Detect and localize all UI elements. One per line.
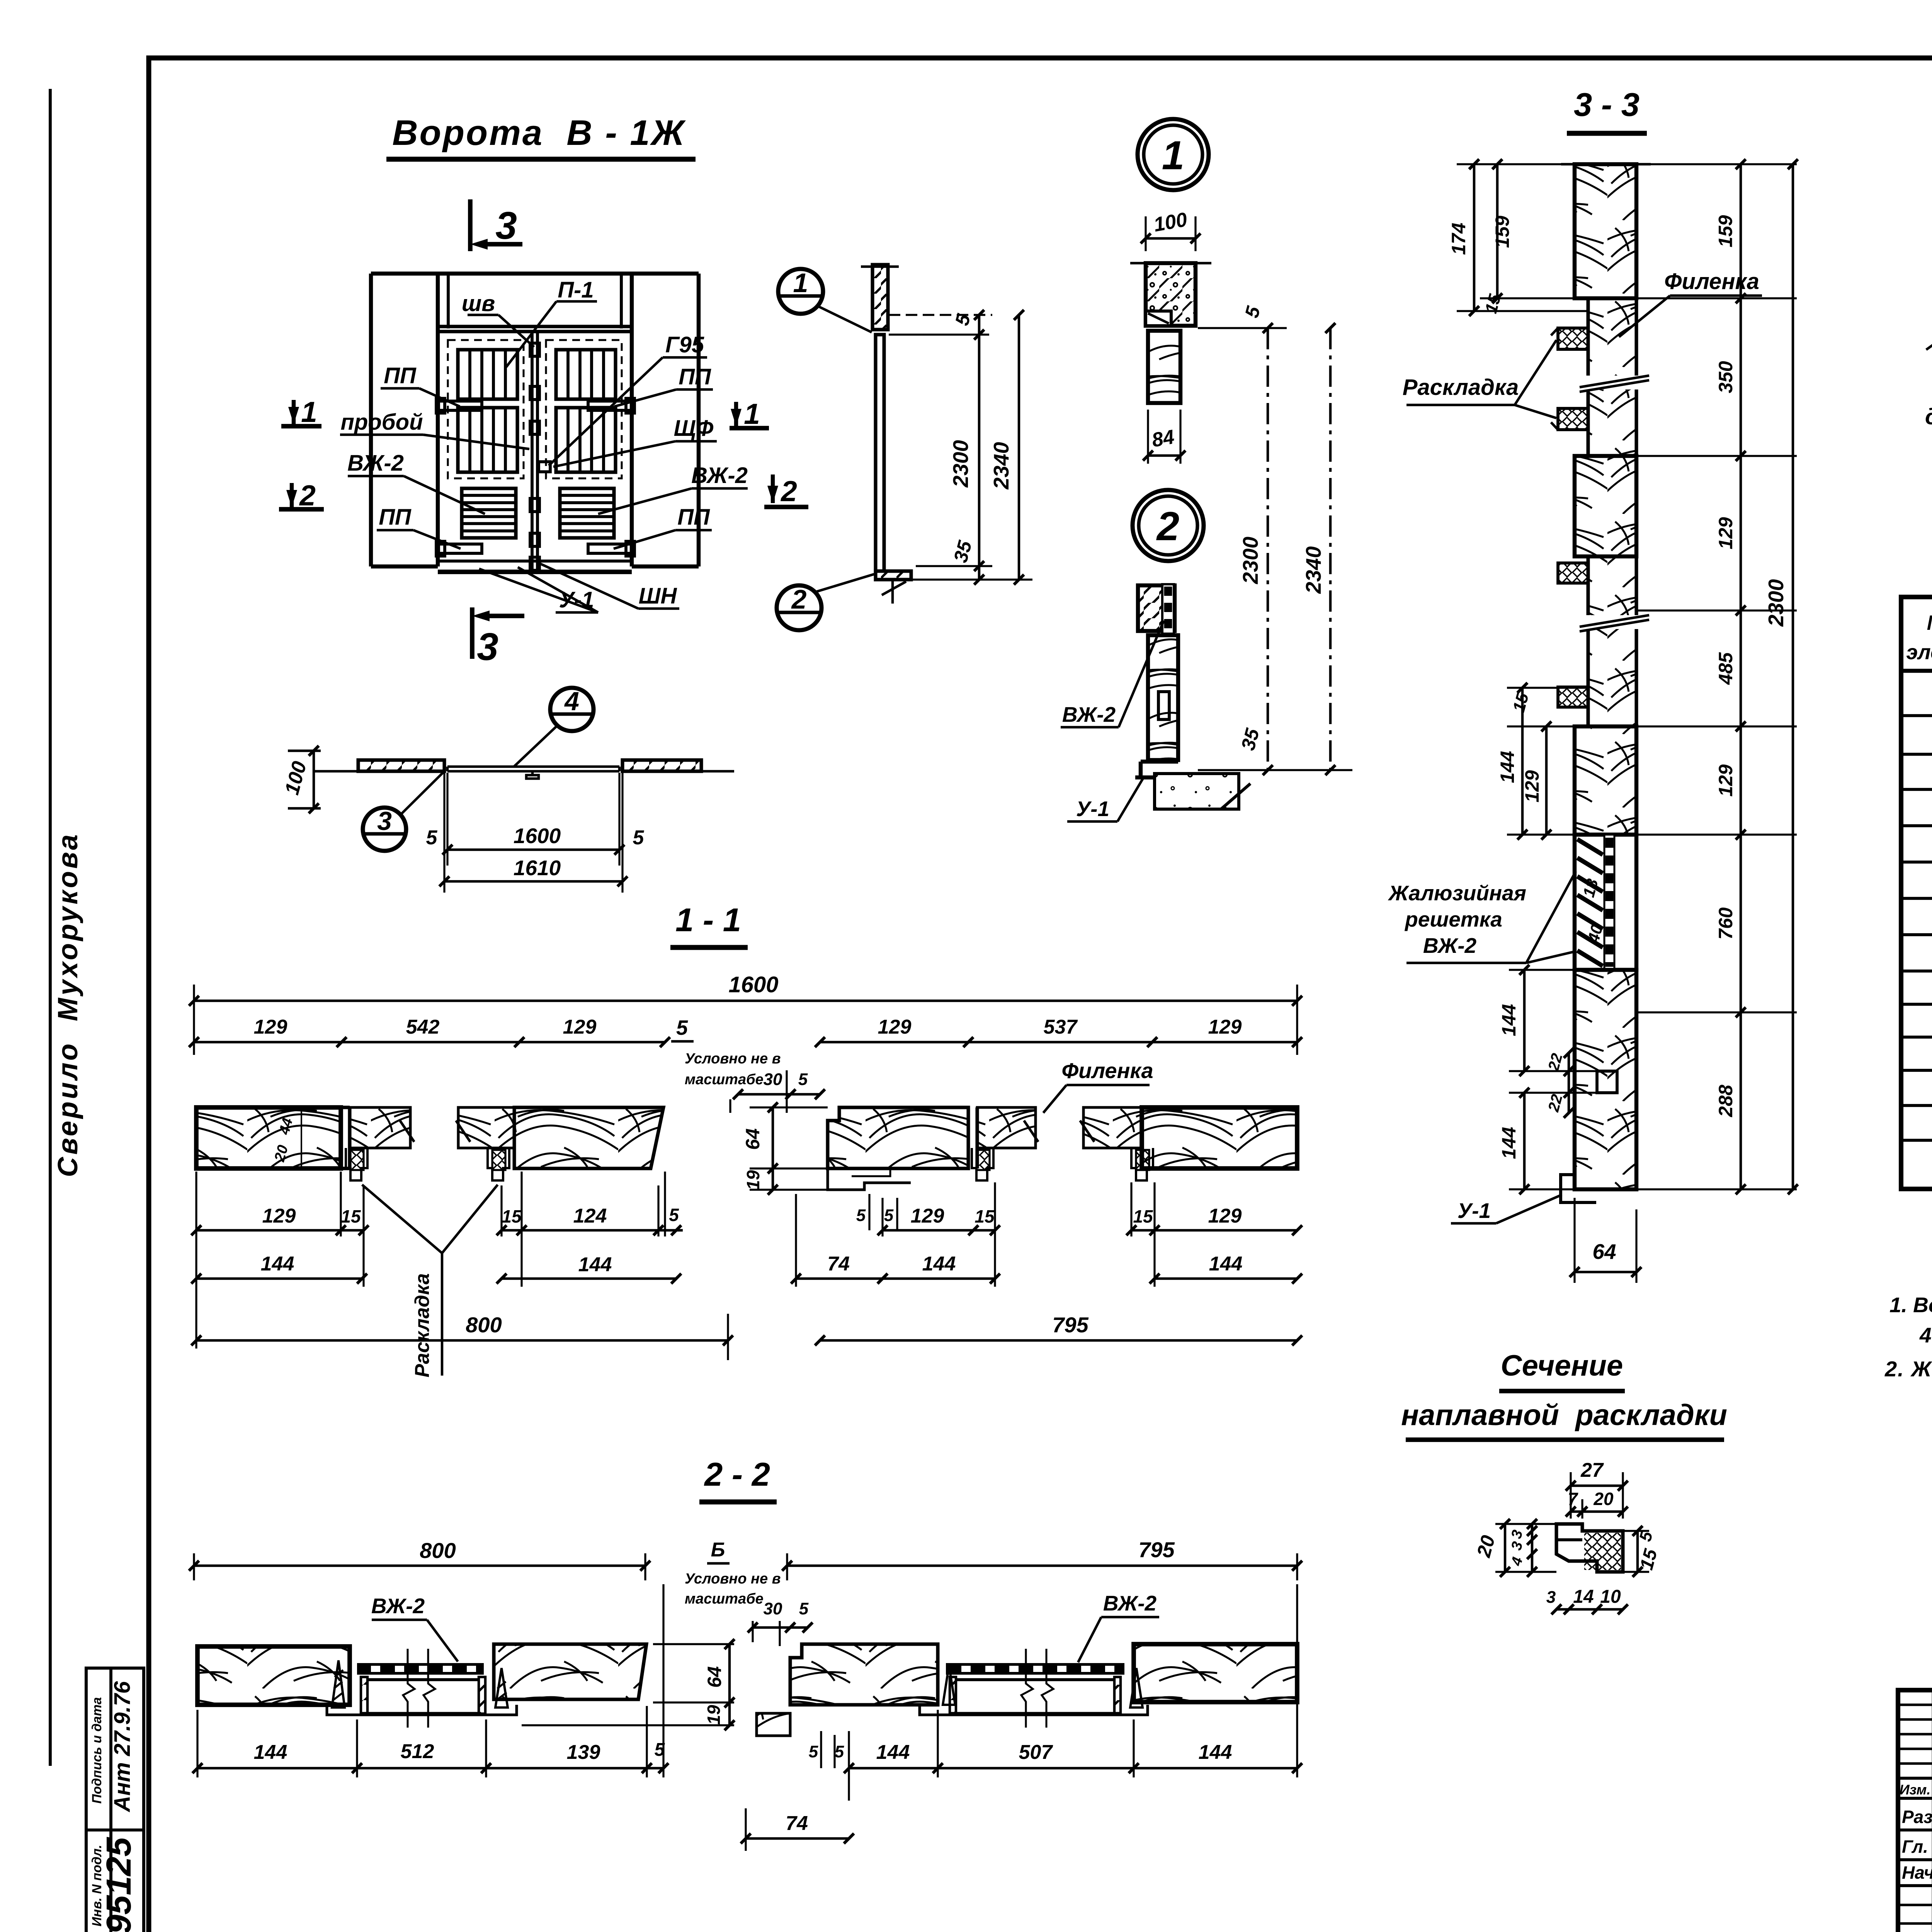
svg-text:3 - 3: 3 - 3 (1574, 87, 1639, 123)
svg-text:15: 15 (341, 1206, 361, 1226)
svg-text:Сверило Мухорукова: Сверило Мухорукова (53, 832, 83, 1177)
3-3 left dims top (1457, 163, 1561, 165)
svg-text:П-1: П-1 (558, 277, 594, 303)
svg-text:Сечение: Сечение (1501, 1349, 1623, 1382)
svg-text:1: 1 (793, 268, 808, 298)
balloon 3 plan (363, 808, 406, 851)
1-1 left bar: left wood block (196, 1107, 341, 1168)
balloon 1 side view (778, 269, 823, 314)
svg-text:288: 288 (1715, 1085, 1736, 1117)
leaf dashed contour (546, 340, 622, 478)
leaf dashed contour (448, 340, 524, 478)
door leaves bottom (438, 570, 632, 574)
svg-text:Подпись и дата: Подпись и дата (90, 1697, 104, 1804)
svg-text:1610: 1610 (514, 856, 561, 880)
svg-text:30: 30 (764, 1070, 782, 1089)
balloon 4 plan (550, 688, 594, 731)
title block small table verticals (1932, 1690, 1932, 1932)
svg-text:5: 5 (655, 1740, 665, 1760)
svg-text:800: 800 (466, 1313, 502, 1337)
2-2 left louver strip VZh-2 (357, 1663, 484, 1675)
embedded angle in panel (1146, 311, 1171, 326)
plan left wall bar (358, 760, 444, 771)
svg-text:2300: 2300 (1764, 579, 1788, 627)
svg-text:1600: 1600 (728, 972, 778, 997)
svg-text:124: 124 (573, 1205, 607, 1227)
svg-text:3: 3 (1508, 1540, 1526, 1552)
2-2 right stake A (943, 1665, 955, 1705)
svg-text:5: 5 (676, 1016, 688, 1039)
section mark 1 left (292, 400, 296, 424)
2-2 vertical dims 64 19 (653, 1643, 734, 1645)
detail1 dim 100 (1145, 216, 1146, 251)
svg-text:ПП: ПП (384, 363, 417, 388)
2-2 dim 795 (786, 1553, 788, 1580)
leaf slat panel (556, 350, 616, 399)
2-2 left bar: right wood block (494, 1644, 646, 1699)
2-2 right bar: right wood block (1134, 1644, 1297, 1702)
svg-text:наплавной раскладки: наплавной раскладки (1401, 1399, 1727, 1432)
svg-text:Ворота В - 1Ж: Ворота В - 1Ж (392, 113, 686, 153)
section mark 3 top (468, 199, 473, 251)
svg-text:ВЖ-2: ВЖ-2 (1423, 934, 1477, 957)
svg-text:ШН: ШН (639, 583, 677, 609)
svg-text:1 - 1: 1 - 1 (675, 902, 741, 939)
transom rail (438, 325, 632, 328)
svg-text:2: 2 (791, 584, 807, 614)
svg-text:3: 3 (377, 806, 392, 836)
svg-text:У-1: У-1 (1458, 1199, 1491, 1223)
svg-text:795: 795 (1052, 1313, 1088, 1337)
svg-text:350: 350 (1715, 361, 1736, 393)
leaf slat panel (458, 408, 517, 472)
1-1 right bar: right wood block (1142, 1107, 1297, 1168)
detail1 wood leaf section (1148, 331, 1180, 403)
2-2 right stake (495, 1668, 508, 1708)
vertical dim 2300 detail (1267, 328, 1269, 770)
svg-text:Жалюзийная: Жалюзийная (1388, 881, 1526, 905)
svg-text:Раскладка: Раскладка (1403, 375, 1519, 400)
svg-text:19: 19 (704, 1705, 724, 1725)
svg-text:95125: 95125 (100, 1837, 138, 1932)
vertical dim 2340 detail (1198, 769, 1352, 771)
section mark 2 at side view (771, 474, 775, 503)
3-3 filenka panel A (1588, 298, 1636, 456)
svg-text:1: 1 (744, 398, 760, 430)
svg-text:20: 20 (1593, 1489, 1614, 1509)
side view door leaf (876, 335, 884, 571)
3-3 louver zone (1575, 835, 1636, 970)
svg-text:35: 35 (1237, 726, 1264, 752)
1-1 vertical dims 64 19 (750, 1106, 828, 1108)
svg-text:40: 40 (1584, 923, 1606, 945)
svg-text:2340: 2340 (989, 442, 1013, 490)
1-1 left bar: rail board 1 (350, 1107, 410, 1148)
svg-text:шв: шв (462, 291, 495, 316)
raskladka profile (1556, 1524, 1623, 1572)
svg-text:5: 5 (798, 1070, 808, 1089)
svg-text:3: 3 (477, 625, 498, 668)
svg-text:ПП: ПП (379, 505, 412, 530)
2-2 break lines (403, 1649, 415, 1728)
svg-text:15: 15 (1509, 691, 1532, 714)
svg-text:ВЖ-2: ВЖ-2 (1062, 702, 1116, 726)
center stile (531, 332, 534, 572)
svg-text:4: 4 (1508, 1555, 1526, 1568)
raskladka mouldings A (1558, 328, 1588, 349)
svg-text:Разраб.: Разраб. (1902, 1807, 1932, 1827)
svg-text:139: 139 (567, 1741, 600, 1764)
2-2 right bar: threshold piece (757, 1713, 790, 1736)
svg-text:Изм.: Изм. (1900, 1782, 1930, 1798)
svg-text:800: 800 (420, 1538, 456, 1563)
1-1 left bar: stile (339, 1107, 342, 1168)
svg-text:5: 5 (669, 1205, 679, 1225)
side view bottom sill (876, 571, 911, 580)
svg-text:159: 159 (1492, 216, 1513, 248)
margin stamp table (86, 1668, 144, 1932)
leaf slat panel (556, 408, 616, 472)
plan dim 1610 (444, 880, 622, 883)
svg-text:15: 15 (975, 1206, 995, 1226)
3-3 mid-left dims (1507, 687, 1588, 689)
svg-text:2: 2 (299, 479, 316, 512)
2-2 dim 800 (193, 1553, 195, 1580)
svg-text:22: 22 (1545, 1092, 1566, 1114)
section mark 3 bottom (470, 607, 474, 659)
2-2 bottom plate (327, 1705, 517, 1715)
svg-text:35: 35 (949, 538, 976, 565)
raskladka dims (1570, 1472, 1571, 1519)
plan handle (531, 771, 534, 775)
hinges PP (439, 401, 482, 410)
leaf slat panel (458, 350, 517, 399)
svg-text:15: 15 (1133, 1206, 1153, 1226)
svg-text:144: 144 (261, 1253, 294, 1275)
svg-text:7: 7 (1568, 1489, 1578, 1509)
svg-text:ВЖ-2: ВЖ-2 (347, 451, 404, 476)
2-2 right stake B (1130, 1668, 1143, 1708)
svg-text:129: 129 (1208, 1016, 1242, 1038)
3-3 bottom-left dims (1509, 969, 1575, 971)
sheet fold line left (49, 89, 52, 1766)
svg-text:100: 100 (281, 759, 311, 797)
1-1 right bar: left wood block with notch (828, 1107, 968, 1168)
svg-text:ПП: ПП (679, 364, 711, 389)
balloon 2 side view (777, 585, 821, 630)
spec table grid (1901, 597, 1932, 1189)
svg-text:5: 5 (633, 827, 645, 849)
svg-text:2 - 2: 2 - 2 (704, 1456, 770, 1493)
svg-text:27: 27 (1580, 1459, 1604, 1481)
svg-text:Условно не в: Условно не в (685, 1571, 781, 1587)
balloon detail 2 (1133, 490, 1204, 561)
3-3 right dim chain (1636, 163, 1797, 165)
svg-text:Нач. отд.: Нач. отд. (1902, 1862, 1932, 1883)
svg-text:144: 144 (922, 1253, 956, 1275)
svg-text:Б: Б (711, 1539, 725, 1561)
svg-text:2: 2 (780, 475, 797, 507)
detail2 wood post (1148, 635, 1178, 760)
svg-text:84: 84 (1150, 426, 1176, 452)
svg-text:Условно не в: Условно не в (685, 1051, 781, 1067)
svg-text:144: 144 (1497, 751, 1518, 783)
plan right wall bar (622, 760, 701, 771)
svg-text:5: 5 (809, 1742, 818, 1761)
1-1 left bar: rail board 2 (458, 1107, 514, 1148)
svg-text:Филенка: Филенка (1061, 1058, 1153, 1083)
svg-text:ПП: ПП (677, 505, 710, 530)
svg-text:2: 2 (1156, 504, 1179, 549)
svg-text:5: 5 (951, 311, 975, 328)
svg-text:решетка: решетка (1404, 907, 1502, 931)
dim 84 (1147, 410, 1149, 464)
svg-text:15: 15 (502, 1206, 522, 1226)
svg-text:2300: 2300 (1238, 536, 1262, 584)
svg-text:2340: 2340 (1301, 546, 1325, 594)
svg-text:Ант 27.9.76: Ант 27.9.76 (110, 1681, 135, 1813)
2-2 right bar: left wood block with notch (790, 1644, 938, 1705)
svg-text:деталь в панели.: деталь в панели. (1925, 404, 1932, 429)
svg-text:407 - 3 - 167/75, альбом III: 407 - 3 - 167/75, альбом III. (1919, 1323, 1932, 1347)
svg-text:144: 144 (876, 1741, 910, 1764)
svg-text:1600: 1600 (514, 824, 561, 848)
svg-text:760: 760 (1715, 907, 1736, 940)
svg-text:5: 5 (426, 827, 438, 849)
svg-text:ВЖ-2: ВЖ-2 (1103, 1591, 1157, 1615)
svg-text:ВЖ-2: ВЖ-2 (691, 463, 748, 488)
svg-text:144: 144 (1209, 1253, 1243, 1275)
svg-text:3: 3 (1508, 1528, 1526, 1540)
svg-text:144: 144 (254, 1741, 287, 1764)
svg-text:Марка: Марка (1927, 611, 1932, 634)
svg-text:129: 129 (262, 1205, 296, 1227)
2-2 left stake (332, 1660, 345, 1708)
svg-text:Раскладка: Раскладка (411, 1273, 434, 1378)
concrete sill detail2 (1155, 774, 1239, 809)
svg-text:64: 64 (1592, 1240, 1616, 1264)
gate jambs (436, 274, 440, 566)
3-3 filenka panel B (1588, 556, 1636, 726)
svg-text:74: 74 (827, 1253, 850, 1275)
svg-text:129: 129 (563, 1016, 597, 1038)
svg-text:20: 20 (1473, 1533, 1499, 1560)
svg-text:10: 10 (1600, 1587, 1621, 1607)
louver grille VZh-2 (462, 488, 516, 538)
svg-text:У-1: У-1 (1076, 797, 1109, 821)
detail2 louver strip (1162, 584, 1174, 634)
svg-text:масштабе: масштабе (685, 1071, 764, 1088)
3-3 bottom angle U-1 (1561, 1175, 1596, 1202)
svg-text:3: 3 (1546, 1588, 1556, 1607)
svg-text:144: 144 (1498, 1004, 1520, 1036)
1-1 dims below left bar (195, 1172, 197, 1349)
bottom angle U-1 (438, 560, 632, 563)
svg-text:64: 64 (742, 1128, 764, 1150)
side view top hatched jamb (872, 265, 888, 330)
svg-text:Гл. спец.: Гл. спец. (1902, 1837, 1932, 1857)
svg-text:Филенка: Филенка (1664, 269, 1759, 294)
3-3 overall 2300 (1792, 164, 1794, 1189)
louver grille VZh-2 (560, 488, 614, 538)
1-1 overall dim 1600 (193, 985, 195, 1055)
1-1 right raskladka mouldings (972, 1148, 993, 1180)
3-3 wood column segments (1561, 163, 1651, 166)
gate wall panel outline (371, 272, 699, 276)
svg-text:144: 144 (1199, 1741, 1232, 1764)
svg-text:507: 507 (1019, 1741, 1053, 1764)
gap dim 5 (1198, 327, 1287, 329)
svg-text:129: 129 (878, 1016, 912, 1038)
1-1 right bar: stile (966, 1107, 970, 1168)
1-1 chain dims row (194, 1041, 665, 1044)
svg-text:1. Ворота В - 1Ж выполнены с и: 1. Ворота В - 1Ж выполнены с использован… (1889, 1293, 1932, 1317)
svg-text:129: 129 (911, 1205, 944, 1227)
1-1 left bar: right wood block (514, 1107, 663, 1168)
plan dim 1600 (443, 773, 445, 893)
svg-text:пробой: пробой (340, 410, 423, 435)
U-1 angle detail2 (1141, 760, 1178, 764)
svg-text:2. Жалюзийную решетку ВЖ-2: 2. Жалюзийную решетку ВЖ-2 смотреть на л… (1884, 1357, 1932, 1381)
2-2 left channel (361, 1677, 367, 1714)
svg-text:129: 129 (1715, 764, 1736, 797)
svg-text:129: 129 (1715, 517, 1736, 549)
svg-text:512: 512 (401, 1740, 434, 1763)
svg-text:2300: 2300 (949, 440, 973, 488)
1-1 bottom rebate profile 74 (828, 1168, 911, 1190)
svg-text:537: 537 (1044, 1016, 1078, 1038)
2-2 right channel (950, 1677, 956, 1714)
svg-text:30: 30 (764, 1599, 782, 1618)
svg-text:5: 5 (799, 1599, 809, 1618)
svg-text:масштабе: масштабе (685, 1591, 764, 1607)
svg-text:ВЖ-2: ВЖ-2 (371, 1594, 425, 1618)
svg-text:129: 129 (254, 1016, 287, 1038)
svg-text:5: 5 (1241, 304, 1265, 320)
latch SchF (539, 462, 550, 472)
svg-text:3: 3 (495, 204, 517, 247)
svg-text:5: 5 (856, 1206, 866, 1225)
1-1 raskladka moulding right (488, 1148, 509, 1180)
svg-text:542: 542 (406, 1016, 440, 1038)
svg-text:4: 4 (564, 687, 579, 716)
break in panel A (1580, 376, 1649, 389)
svg-text:129: 129 (1521, 770, 1543, 803)
section mark 2 left (290, 483, 294, 507)
plan dim 100 (288, 750, 321, 752)
svg-text:100: 100 (1152, 208, 1189, 236)
2-2 dims below left (196, 1710, 198, 1777)
svg-text:159: 159 (1715, 215, 1736, 248)
svg-text:22: 22 (1545, 1051, 1566, 1073)
center hardware blocks (530, 343, 539, 356)
2-2 right louver strip (946, 1663, 1124, 1675)
title block outer (1898, 1690, 1932, 1932)
balloon detail 1 (1138, 119, 1209, 190)
svg-text:14: 14 (1573, 1587, 1594, 1607)
svg-text:144: 144 (1498, 1127, 1520, 1159)
svg-text:ЩФ: ЩФ (674, 416, 714, 441)
small table narrow rows (1898, 1704, 1932, 1706)
svg-text:19: 19 (743, 1170, 763, 1190)
1-1 raskladka moulding left (346, 1148, 367, 1180)
2-2 left bar: left wood block (197, 1646, 350, 1705)
svg-text:5: 5 (884, 1206, 894, 1225)
1-1 right bar: rail boards (977, 1107, 1036, 1148)
svg-text:1: 1 (301, 396, 317, 428)
svg-text:485: 485 (1715, 652, 1736, 685)
section mark 1 right (734, 402, 738, 426)
detail2 hatched head (1138, 585, 1175, 631)
svg-text:795: 795 (1138, 1537, 1175, 1562)
svg-text:5: 5 (835, 1742, 844, 1761)
svg-text:Г95: Г95 (665, 332, 704, 357)
svg-text:174: 174 (1448, 223, 1469, 255)
svg-text:129: 129 (1208, 1205, 1242, 1227)
plan door leaf line (447, 765, 619, 768)
svg-text:64: 64 (704, 1666, 725, 1688)
svg-text:элемента: элемента (1906, 641, 1932, 664)
2-2 right break lines (1021, 1649, 1033, 1728)
svg-text:144: 144 (578, 1253, 612, 1276)
side view dims (889, 314, 992, 316)
detail1 concrete panel (1146, 263, 1196, 326)
3-3 dim 64 (1573, 1198, 1575, 1283)
svg-text:1: 1 (1162, 133, 1184, 178)
svg-text:74: 74 (786, 1812, 808, 1835)
